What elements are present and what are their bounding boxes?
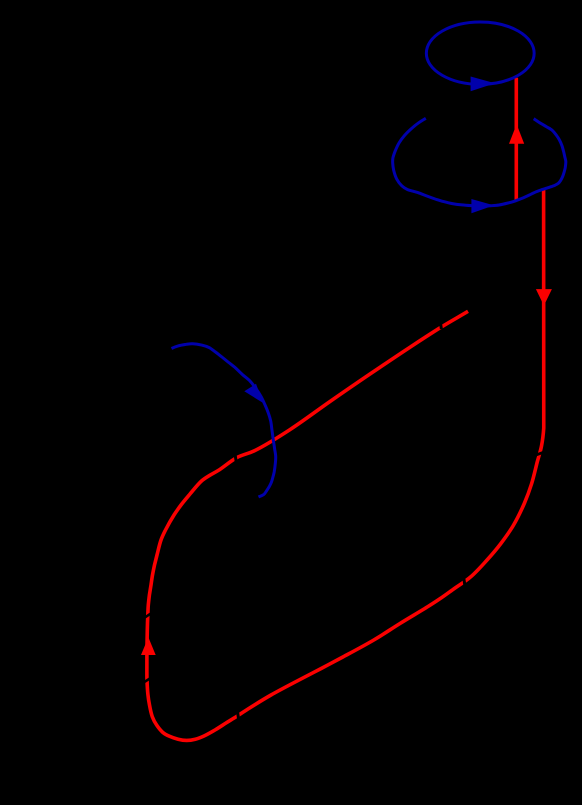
occlusion gap G2 on diagonal (235, 453, 236, 462)
occlusion gap G6 on bottom diagonal (237, 711, 238, 721)
occlusion gap G1 on diagonal (440, 320, 441, 329)
arrow: field direction on left arc (244, 384, 263, 403)
arrow: current direction down on right vertical segment (536, 289, 552, 306)
arrow: field direction on big ellipse (471, 199, 494, 213)
arrow: current direction up on left side of loop (141, 637, 156, 655)
occlusion gap G3 on right vertical (535, 451, 546, 455)
field line: small blue ellipse (top) (426, 22, 534, 84)
field line: big blue ellipse arc (middle) (393, 118, 566, 206)
wire: red current loop (main circuit path) (147, 188, 544, 740)
occlusion gap G5 on lower right curve (464, 579, 465, 588)
field line: blue arc around left diagonal wire (172, 344, 276, 497)
arrow: current direction up on upper vertical segment (509, 124, 524, 144)
occlusion gap G7 on left vertical (144, 613, 152, 618)
arrow: field direction on small ellipse (471, 77, 495, 92)
wire: red vertical segment through field coils (upper) (514, 78, 518, 201)
occlusion gap G7b on left vertical (143, 678, 151, 683)
